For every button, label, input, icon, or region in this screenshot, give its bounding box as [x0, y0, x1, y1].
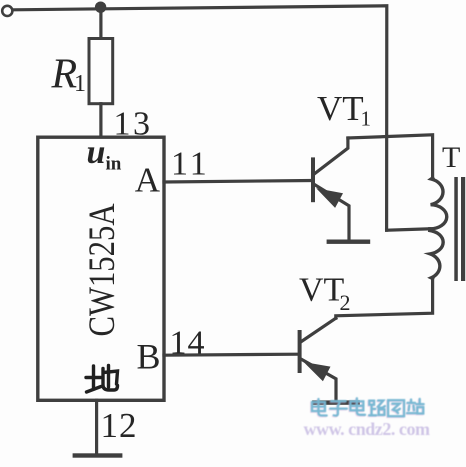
svg-text:www. cndz2. com: www. cndz2. com — [304, 419, 431, 439]
svg-text:1: 1 — [361, 107, 372, 131]
op-amp U1 CW1525A body — [38, 137, 164, 400]
wire dot to resistor — [99, 7, 102, 39]
transistor Q1 VT1 base bar — [311, 159, 315, 200]
transistor Q2 VT2 emitter arrow — [304, 362, 331, 381]
wire pin 11 A to VT1 base — [164, 181, 311, 183]
watermark magenta ghost — [311, 399, 423, 417]
transistor Q1 VT1 emitter arrow — [316, 188, 343, 208]
svg-text:11: 11 — [171, 146, 210, 183]
label 地 (ground) hand-drawn — [86, 366, 118, 393]
wire pin 12 — [95, 400, 98, 453]
inductor T primary winding — [430, 178, 447, 279]
watermark cyan main — [312, 398, 424, 416]
svg-text:B: B — [137, 337, 161, 377]
junction dot — [95, 2, 106, 13]
svg-text:CW1525A: CW1525A — [82, 203, 122, 336]
wire VT2 collector to transformer bottom — [336, 279, 433, 319]
wire VT1 collector to transformer top — [348, 135, 433, 178]
core of transformer T line 1 — [454, 177, 458, 281]
ground pin 12 — [73, 453, 123, 457]
svg-text:12: 12 — [101, 406, 138, 445]
transistor Q2 VT2 base bar — [298, 332, 302, 371]
svg-text:VT: VT — [299, 272, 345, 309]
svg-text:u: u — [87, 134, 106, 171]
input terminal — [2, 6, 12, 16]
transistor Q2 VT2 emitter — [301, 359, 336, 400]
svg-text:A: A — [135, 161, 161, 200]
ground VT1 emitter — [327, 240, 371, 244]
transistor Q2 VT2 collector — [301, 318, 335, 341]
wire center tap feed — [387, 229, 430, 230]
wire top rail — [14, 6, 387, 230]
wire pin 14 B to VT2 base — [164, 354, 298, 355]
svg-text:VT: VT — [317, 89, 364, 128]
core of transformer T line 2 — [461, 177, 465, 281]
transistor Q1 VT1 emitter — [315, 185, 349, 239]
svg-text:T: T — [442, 141, 460, 174]
svg-text:2: 2 — [340, 290, 351, 315]
svg-text:in: in — [106, 154, 122, 175]
transistor Q1 VT1 collector — [315, 138, 348, 174]
svg-text:1: 1 — [74, 71, 86, 97]
svg-text:14: 14 — [170, 325, 206, 362]
ground VT2 emitter — [312, 400, 360, 404]
resistor R1 — [89, 39, 113, 104]
wire resistor to pin 13 — [99, 104, 102, 137]
svg-text:13: 13 — [114, 106, 153, 143]
